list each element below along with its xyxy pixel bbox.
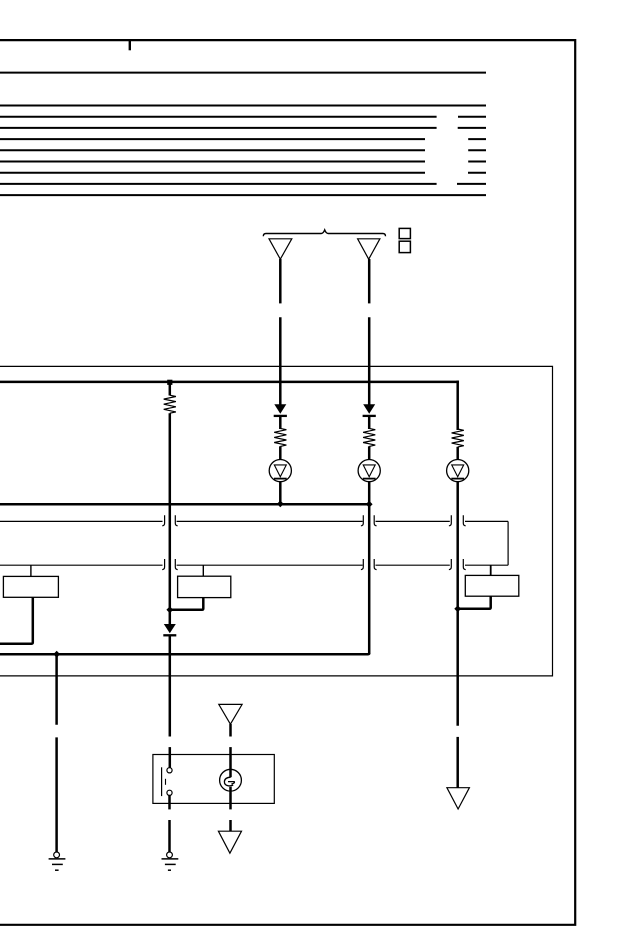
block M	[178, 576, 231, 597]
connector pair 2 lower	[361, 559, 377, 570]
wire W3 mid	[169, 413, 172, 624]
border tick	[129, 40, 131, 50]
connector triangle C (to relay)	[219, 704, 242, 724]
table row line 7	[0, 172, 486, 174]
diode D2	[363, 404, 376, 429]
wire LED1 to bus B2	[279, 481, 282, 504]
table row line 4	[0, 138, 486, 140]
table row line 2	[0, 116, 486, 118]
diode D1	[274, 404, 287, 429]
LED indicator 2	[358, 460, 380, 482]
block L output wire	[0, 597, 33, 643]
connector triangle E (bottom right)	[447, 788, 470, 809]
switch contact upper	[167, 768, 172, 773]
resistor R3	[363, 428, 375, 460]
junction dot LED1/B2	[277, 501, 284, 508]
connector triangle D (below relay)	[218, 831, 241, 853]
legend square 2	[399, 241, 410, 252]
table row line 6	[0, 161, 486, 163]
switch blade	[161, 767, 163, 796]
switch dash	[165, 779, 167, 785]
junction dot R1 top	[167, 380, 172, 385]
bus B1	[0, 381, 459, 384]
table row line 3	[0, 127, 486, 129]
wire W6 upper	[229, 724, 232, 770]
diode D3	[163, 624, 176, 635]
block R	[465, 575, 519, 596]
wire W3 lower	[169, 636, 172, 768]
wire W2 upper (triangle B down)	[368, 259, 371, 405]
connector triangle B (right)	[358, 239, 380, 259]
LED indicator 1	[269, 460, 291, 482]
resistor R4	[452, 429, 464, 460]
wire loop upper run	[0, 520, 508, 522]
LED indicator 3	[447, 460, 469, 482]
ground G2	[162, 852, 179, 870]
table row line 1	[0, 105, 486, 107]
combination meter box	[0, 366, 553, 676]
resistor R2	[274, 428, 286, 460]
table row line 5	[0, 149, 486, 151]
bus B3	[0, 653, 369, 654]
junction dot ground branch	[53, 651, 60, 658]
connector pair 1 lower	[162, 559, 178, 570]
coil lower wire	[229, 791, 232, 832]
junction dot W2/B2	[366, 501, 373, 508]
resistor R1	[164, 382, 176, 413]
relay coil	[220, 769, 242, 791]
junction dot W4 branch	[454, 605, 461, 612]
relay box	[153, 755, 274, 804]
connector pair 1 upper	[162, 515, 178, 526]
bus B2	[0, 503, 370, 506]
block R output wire	[458, 596, 491, 609]
table row line 9	[0, 194, 486, 196]
brace over connectors	[263, 230, 385, 236]
connector pair 3 lower	[449, 559, 466, 570]
header rule	[0, 72, 486, 74]
block L	[3, 576, 58, 597]
junction dot W3 branch	[166, 606, 173, 613]
connector pair 2 upper	[361, 515, 377, 526]
switch contact lower	[167, 790, 172, 795]
block L feed	[30, 565, 32, 576]
wire W4 from B1 corner	[456, 381, 459, 431]
block R feed	[490, 565, 492, 575]
connector triangle A (left)	[269, 239, 292, 259]
switch to ground wire	[168, 795, 171, 852]
block M output wire	[170, 598, 204, 610]
ground G1	[49, 852, 66, 870]
wire W4 lower	[456, 481, 459, 788]
wire W2 lower to bus B3	[368, 481, 371, 654]
wire loop lower run	[0, 564, 508, 566]
legend square 1	[399, 228, 410, 238]
table row line 8	[0, 183, 486, 185]
connector pair 3 upper	[449, 515, 466, 526]
wire loop right return	[507, 521, 509, 565]
block M feed	[202, 565, 204, 576]
ground wire W5	[55, 654, 58, 852]
wire W1 upper (triangle A down)	[279, 259, 282, 405]
